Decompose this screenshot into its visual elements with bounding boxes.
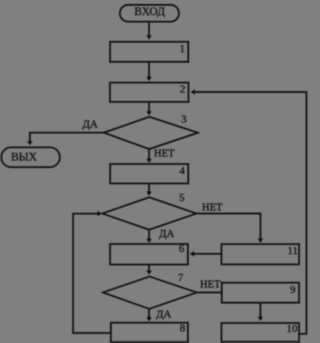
svg-text:НЕТ: НЕТ	[202, 203, 223, 214]
svg-text:6: 6	[179, 243, 185, 255]
svg-text:5: 5	[179, 192, 185, 204]
svg-text:ДА: ДА	[159, 228, 175, 240]
svg-text:ВХОД: ВХОД	[134, 6, 165, 18]
svg-text:4: 4	[179, 165, 185, 177]
svg-text:ДА: ДА	[156, 308, 172, 320]
svg-text:3: 3	[181, 114, 187, 126]
svg-text:НЕТ: НЕТ	[154, 148, 175, 159]
svg-text:НЕТ: НЕТ	[200, 279, 221, 290]
svg-text:7: 7	[178, 272, 184, 284]
svg-text:9: 9	[290, 284, 296, 296]
svg-text:ДА: ДА	[82, 118, 98, 130]
svg-text:1: 1	[180, 43, 186, 55]
svg-text:10: 10	[286, 323, 298, 335]
svg-text:ВЫХ: ВЫХ	[11, 152, 38, 164]
svg-text:11: 11	[287, 245, 298, 257]
svg-text:8: 8	[180, 323, 186, 335]
svg-text:2: 2	[180, 83, 186, 95]
